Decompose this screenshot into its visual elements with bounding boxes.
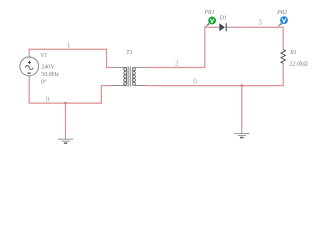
- wire V1 bottom to left rail: [29, 80, 111, 103]
- svg-text:PR2: PR2: [276, 10, 287, 16]
- wire net 3: [234, 27, 284, 45]
- wire top rail net 1: [29, 49, 111, 67]
- svg-text:D1: D1: [219, 15, 227, 21]
- svg-text:50.0Hz: 50.0Hz: [41, 72, 59, 78]
- wire net 0 secondary bottom rail: [147, 68, 284, 86]
- wire net 2 secondary top: [147, 27, 215, 67]
- source V1: [20, 54, 39, 80]
- svg-text:PR1: PR1: [203, 10, 214, 16]
- transformer T1: [111, 66, 146, 86]
- svg-text:22.0kΩ: 22.0kΩ: [290, 61, 309, 67]
- svg-text:0: 0: [46, 95, 50, 103]
- svg-text:0: 0: [193, 78, 197, 86]
- svg-text:240V: 240V: [41, 64, 55, 70]
- svg-text:2: 2: [175, 59, 179, 67]
- resistor R1: [281, 45, 286, 67]
- svg-text:T1: T1: [126, 50, 132, 56]
- junction dot ground 1: [64, 102, 67, 105]
- junction dot ground 2: [241, 84, 244, 87]
- wire ground 1 stem: [65, 103, 67, 133]
- wire ground 2 stem: [241, 86, 243, 128]
- ground GND2: [234, 128, 249, 138]
- svg-text:0°: 0°: [41, 79, 47, 86]
- svg-text:1: 1: [67, 41, 71, 49]
- svg-text:3: 3: [258, 18, 262, 26]
- svg-text:R1: R1: [289, 50, 297, 56]
- probe PR2: [278, 16, 288, 26]
- ground GND1: [58, 133, 73, 143]
- diode D1: [215, 23, 234, 31]
- probe PR1: [205, 17, 216, 28]
- svg-text:V1: V1: [41, 53, 48, 59]
